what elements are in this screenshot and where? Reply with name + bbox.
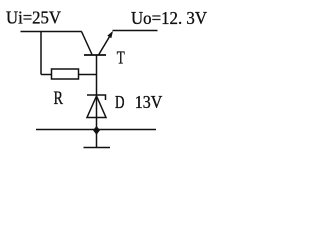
- wire left vertical branch: [40, 31, 42, 75]
- ground bar: [84, 147, 111, 149]
- transistor T emitter lead: [99, 33, 113, 56]
- junction node dot: [93, 126, 100, 135]
- wire resistor R right lead to node: [79, 74, 98, 76]
- transistor T base bar: [84, 54, 106, 56]
- svg-text:R: R: [54, 88, 64, 109]
- transistor T emitter arrowhead: [107, 31, 113, 38]
- wire output rail top-right: [113, 30, 158, 32]
- svg-text:T: T: [117, 48, 125, 68]
- wire to resistor R left lead: [41, 74, 52, 76]
- ground stub: [96, 130, 98, 148]
- svg-text:Ui=25V: Ui=25V: [6, 7, 61, 27]
- resistor R body: [52, 69, 79, 79]
- wire bottom common rail: [36, 129, 156, 131]
- svg-text:Uo=12. 3V: Uo=12. 3V: [131, 8, 207, 28]
- wire input rail top-left: [21, 31, 82, 33]
- wire base lead down through zener to rail: [96, 55, 98, 130]
- transistor T collector lead: [82, 32, 93, 55]
- svg-text:13V: 13V: [135, 92, 163, 112]
- zener diode D triangle: [87, 96, 106, 118]
- svg-text:D: D: [115, 92, 125, 112]
- zener diode D cathode bar: [87, 95, 106, 100]
